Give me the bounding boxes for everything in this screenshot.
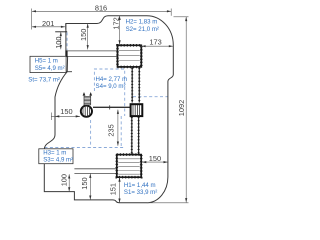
svg-text:H4= 2,77 m: H4= 2,77 m [96, 76, 128, 83]
svg-text:173: 173 [149, 37, 161, 46]
svg-text:150: 150 [60, 107, 72, 116]
svg-text:151: 151 [109, 183, 118, 195]
svg-text:St= 73,7 m²: St= 73,7 m² [28, 77, 60, 84]
svg-text:H2= 1,83 m: H2= 1,83 m [126, 19, 158, 26]
svg-text:H1= 1,44 m: H1= 1,44 m [124, 182, 156, 189]
svg-text:150: 150 [79, 29, 88, 41]
svg-text:S2= 21,0 m²: S2= 21,0 m² [126, 26, 159, 33]
svg-text:S4= 9,0 m²: S4= 9,0 m² [96, 83, 126, 90]
svg-text:S5= 4,9 m²: S5= 4,9 m² [35, 65, 65, 72]
svg-text:150: 150 [80, 177, 89, 189]
svg-text:150: 150 [149, 154, 161, 163]
svg-text:S1= 33,9 m²: S1= 33,9 m² [124, 189, 157, 196]
svg-text:235: 235 [107, 124, 116, 136]
svg-text:816: 816 [95, 4, 107, 13]
svg-text:H5= 1 m: H5= 1 m [35, 58, 58, 65]
svg-text:100: 100 [59, 174, 68, 186]
svg-text:S3= 4,9 m²: S3= 4,9 m² [43, 156, 73, 163]
svg-text:172: 172 [112, 17, 121, 29]
svg-text:100: 100 [54, 36, 63, 48]
svg-text:1092: 1092 [177, 100, 186, 116]
svg-text:201: 201 [42, 19, 54, 28]
